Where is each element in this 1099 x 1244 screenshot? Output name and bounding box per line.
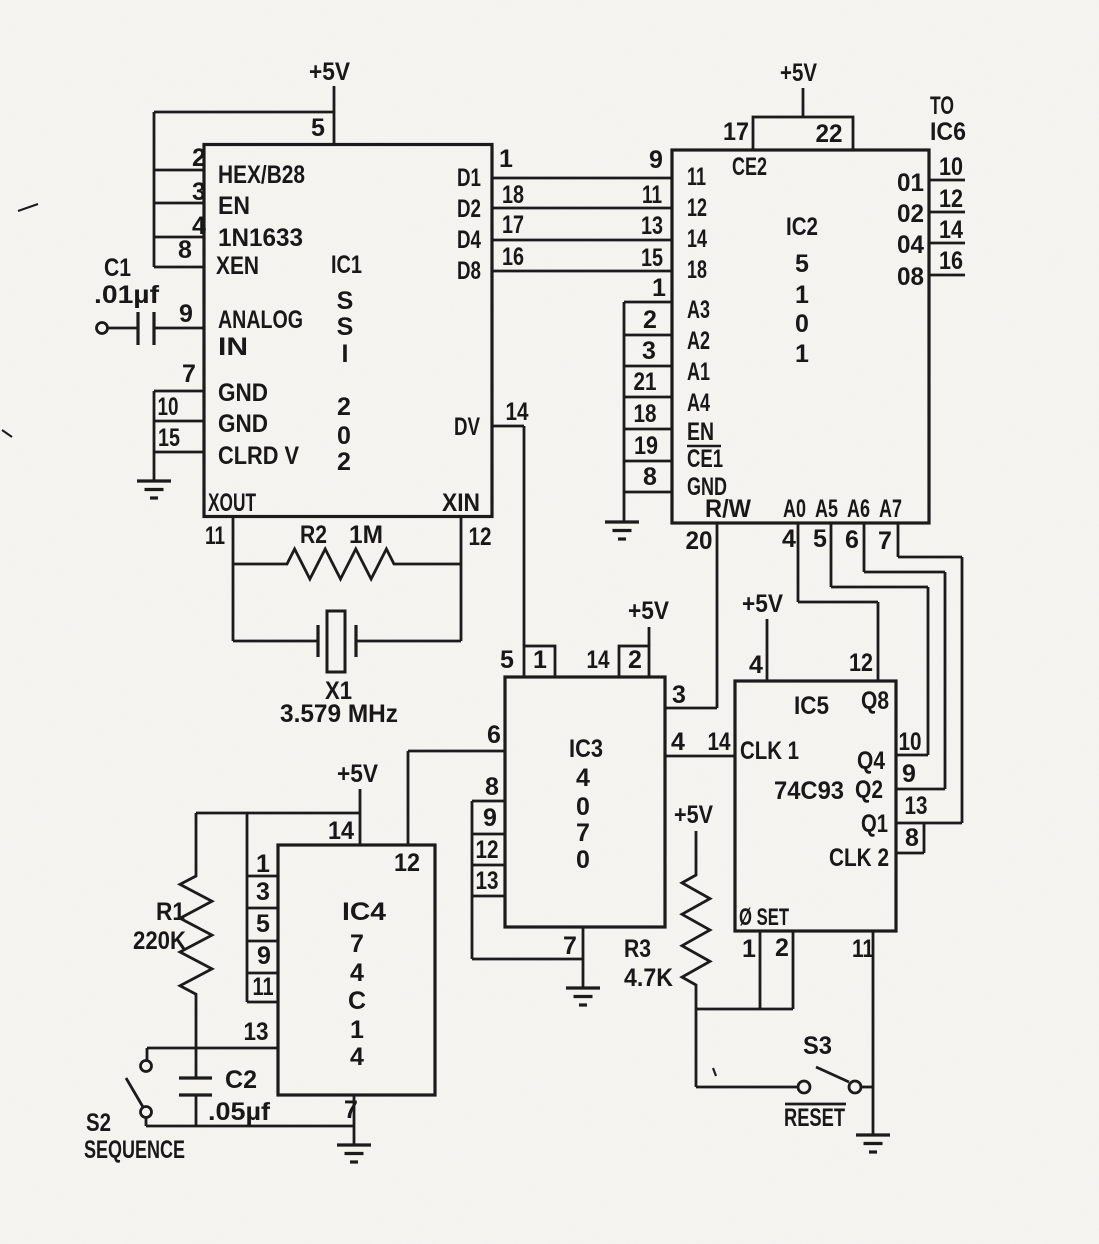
svg-text:R1: R1 (156, 898, 185, 926)
svg-text:1: 1 (742, 935, 756, 963)
S3 lever (816, 1067, 849, 1082)
svg-text:9: 9 (902, 760, 916, 788)
wire A6 net to IC5 pin 9 (864, 523, 945, 789)
svg-text:EN: EN (687, 418, 714, 446)
C1 input terminal circle (97, 323, 108, 334)
svg-text:13: 13 (244, 1018, 269, 1046)
svg-text:GND: GND (218, 379, 268, 407)
svg-text:IN: IN (218, 333, 248, 361)
small tick mark (713, 1068, 716, 1076)
SEQUENCE label (84, 1136, 185, 1164)
svg-text:0: 0 (576, 793, 590, 821)
wire D2 net (IC1 pin 18 to IC2 pin 11) (492, 207, 672, 210)
pin 14 label (708, 728, 731, 756)
DV pin name (454, 413, 480, 441)
svg-text:Q1: Q1 (861, 810, 888, 838)
A0 pin name (783, 495, 806, 523)
pin 1 label (499, 145, 513, 173)
svg-text:01: 01 (897, 169, 924, 197)
pin 3 label (642, 337, 656, 365)
svg-text:Q2: Q2 (855, 776, 883, 804)
svg-text:14: 14 (687, 225, 707, 253)
S2 bottom contact (141, 1107, 152, 1118)
capacitor C2 plates (179, 1078, 212, 1095)
svg-text:14: 14 (587, 646, 610, 674)
pin 9 label (649, 146, 663, 174)
EN pin name (687, 418, 714, 446)
svg-text:C2: C2 (225, 1066, 257, 1094)
svg-text:SEQUENCE: SEQUENCE (84, 1136, 185, 1164)
svg-text:220K: 220K (133, 927, 186, 955)
pin 8 label (905, 824, 919, 852)
GND pin name (687, 473, 727, 501)
IC3 pin 12 wire (472, 864, 505, 867)
svg-text:XIN: XIN (442, 489, 480, 517)
pin 8 label (178, 236, 192, 264)
svg-text:S: S (337, 287, 354, 315)
svg-text:Q4: Q4 (857, 747, 885, 775)
svg-text:+5V: +5V (337, 760, 378, 788)
svg-text:R/W: R/W (705, 495, 751, 523)
svg-text:4: 4 (350, 1043, 364, 1071)
svg-text:22: 22 (816, 120, 843, 148)
pin 13 label (905, 792, 928, 820)
pin 1 label (533, 646, 547, 674)
wire IC5 pin 2 down (792, 931, 795, 1009)
pin 18 label (502, 181, 524, 209)
svg-text:C: C (348, 987, 366, 1015)
IC2 pin 3 wire (624, 365, 672, 368)
IC1 pin 2 wire (154, 169, 204, 172)
svg-text:7: 7 (576, 819, 590, 847)
pin 16 label (502, 243, 524, 271)
svg-text:4: 4 (749, 651, 763, 679)
wire pin13 to S2 top contact (146, 1048, 149, 1060)
svg-text:17: 17 (723, 118, 749, 146)
svg-text:R3: R3 (624, 935, 651, 963)
A5 pin name (815, 495, 838, 523)
svg-text:IC3: IC3 (569, 735, 603, 763)
pin 12 label (849, 649, 873, 677)
svg-text:12: 12 (469, 523, 492, 551)
wire A5 net to IC5 pin 10 (831, 523, 928, 755)
ground under IC1 (137, 481, 171, 498)
IC3 pins 14/2 top box (619, 646, 649, 677)
XIN pin name (442, 489, 480, 517)
wire reset bus (696, 1008, 793, 1011)
gate IC3 4070 body (505, 677, 665, 927)
svg-text:5: 5 (256, 910, 270, 938)
IC4 part number 74C14 column (348, 930, 366, 1071)
IC3 pin 9 wire (472, 833, 505, 836)
pin 8 label (485, 773, 499, 801)
Q2 pin name (855, 776, 883, 804)
wire +5V bus to R1 top (196, 812, 360, 815)
pin 7 label (A7) (878, 527, 892, 555)
svg-text:3: 3 (256, 878, 270, 906)
IC2 pin 1 wire (A3) (624, 301, 672, 304)
wire D1 net (IC1 pin 1 to IC2 pin 9) (492, 177, 672, 180)
+5V supply rail for IC4 (337, 760, 378, 788)
wire C1 terminal to plate (108, 327, 138, 330)
pin 1 label (652, 274, 666, 302)
counter IC5 74C93 body (735, 681, 896, 931)
svg-text:CE1: CE1 (687, 445, 723, 473)
wire D4 net (IC1 pin 17 to IC2 pin 13) (492, 239, 672, 242)
+5V supply rail for R3 (674, 801, 713, 829)
svg-text:11: 11 (642, 181, 662, 209)
pin 3 label (672, 681, 686, 709)
S2 top contact (141, 1061, 152, 1072)
S2 lever (126, 1078, 143, 1107)
svg-text:7: 7 (182, 360, 196, 388)
wire +5V to IC5 pin 4 (766, 619, 769, 681)
wire IC4 unused-inputs chain bus (246, 813, 249, 1002)
IC2 data pin names 11 12 14 18 (687, 163, 707, 284)
wire R3 bottom to S3 (696, 1009, 797, 1087)
pin 2 label (775, 934, 789, 962)
wire IC3 pin 7 to ground (582, 927, 585, 988)
svg-text:A0: A0 (783, 495, 806, 523)
S3 right contact (849, 1081, 861, 1093)
IC1 part number SSI 202 column (337, 287, 354, 476)
svg-text:+5V: +5V (309, 58, 350, 86)
svg-text:0: 0 (337, 422, 351, 450)
crystal designator X1 (325, 677, 352, 705)
pin 13 label (476, 867, 499, 895)
svg-text:8: 8 (485, 773, 499, 801)
wire Q4 pin 10 stub (896, 754, 928, 757)
R3 designator (624, 935, 651, 963)
wire A0 net to IC5 pin 12 (798, 523, 878, 681)
pin 14 label (939, 216, 963, 244)
wire S2/C2 ground bus to IC4 pin 7 (146, 1125, 354, 1128)
svg-text:2: 2 (628, 646, 642, 674)
pin 3 label (256, 878, 270, 906)
pin 16 label (939, 247, 963, 275)
svg-text:18: 18 (502, 181, 524, 209)
svg-text:D8: D8 (457, 257, 481, 285)
CE2 pin name (732, 153, 767, 181)
ground under IC2 chain (605, 522, 639, 539)
svg-text:4: 4 (576, 764, 590, 792)
wire DV pin 14 to IC3 pin 1 (492, 426, 524, 646)
svg-text:18: 18 (634, 400, 657, 428)
svg-text:IC5: IC5 (794, 692, 829, 720)
svg-text:7: 7 (350, 930, 364, 958)
D1 pin name (457, 164, 481, 192)
svg-text:9: 9 (179, 300, 193, 328)
svg-text:13: 13 (641, 212, 663, 240)
Q4 pin name (857, 747, 885, 775)
capacitor C1 plates (138, 312, 154, 345)
pin 10 label (899, 728, 922, 756)
svg-text:4: 4 (782, 525, 796, 553)
pin 5 label (A5) (813, 525, 827, 553)
wire O1 pin 10 to IC6 (929, 179, 965, 182)
IC4 designator (342, 898, 386, 926)
GND GND CLRD V pin names (218, 379, 299, 470)
resistor R2 designator (300, 521, 327, 549)
svg-text:15: 15 (158, 424, 180, 452)
wire D8 net (IC1 pin 16 to IC2 pin 15) (492, 270, 672, 273)
ground under IC4 (337, 1145, 371, 1162)
svg-text:S2: S2 (86, 1109, 111, 1137)
ANALOG IN pin name (218, 306, 303, 361)
pin 9 label (902, 760, 916, 788)
svg-text:D4: D4 (457, 226, 481, 254)
svg-text:6: 6 (487, 721, 501, 749)
svg-text:5: 5 (311, 114, 325, 142)
svg-text:12: 12 (939, 185, 963, 213)
svg-text:3: 3 (192, 178, 206, 206)
IC2 pin 2 wire (624, 334, 672, 337)
svg-text:5: 5 (813, 525, 827, 553)
pin 5 label (500, 646, 514, 674)
wire +5V to IC1 pin 5 (333, 86, 336, 145)
memory IC2 5101 body (672, 150, 929, 523)
scan smudges (decorative) (2, 204, 38, 437)
svg-text:1N1633: 1N1633 (218, 224, 303, 252)
svg-text:1: 1 (499, 145, 513, 173)
wire O2 pin 12 to IC6 (929, 211, 965, 214)
svg-text:14: 14 (506, 398, 529, 426)
svg-text:14: 14 (328, 817, 354, 845)
svg-text:2: 2 (643, 306, 657, 334)
svg-text:1: 1 (350, 1016, 364, 1044)
pin 4 label (A0) (782, 525, 796, 553)
IC1 pin 10 wire (154, 420, 204, 423)
IC2 designator (786, 213, 818, 241)
RESET label with overline (784, 1104, 846, 1132)
svg-text:Ø SET: Ø SET (739, 904, 789, 931)
A1 pin name (687, 358, 710, 386)
X1 value 3.579 MHz (280, 700, 398, 728)
svg-text:9: 9 (257, 942, 271, 970)
IC2 output pin names 01 02 04 08 (897, 169, 924, 291)
wire Q1 pin 13 stub (896, 822, 962, 825)
svg-text:.01µf: .01µf (94, 281, 160, 309)
pin 7 label (344, 1096, 358, 1124)
+5V supply rail for IC1 (309, 58, 350, 86)
svg-text:10: 10 (899, 728, 922, 756)
pin 4 label (192, 212, 206, 240)
wire Q1 to CLK2 pin 8 (896, 823, 924, 853)
svg-text:A2: A2 (687, 327, 710, 355)
wire +5V to IC2 pin 22 (802, 88, 805, 117)
wire XOUT pin 11 down (232, 516, 235, 641)
C2 designator (225, 1066, 257, 1094)
pin 9 label (179, 300, 193, 328)
svg-text:D2: D2 (457, 195, 481, 223)
svg-text:2: 2 (775, 934, 789, 962)
IC2 pin 18 wire (624, 428, 672, 431)
resistor R2 (233, 549, 461, 579)
svg-text:74C93: 74C93 (774, 777, 844, 805)
svg-text:A1: A1 (687, 358, 710, 386)
svg-text:2: 2 (337, 448, 351, 476)
svg-text:IC2: IC2 (786, 213, 818, 241)
svg-text:A3: A3 (687, 296, 710, 324)
svg-text:16: 16 (939, 247, 963, 275)
IC3 pins 5/1 top box (524, 646, 555, 677)
wire C2 bottom to ground bus (195, 1095, 198, 1126)
svg-text:13: 13 (905, 792, 928, 820)
IC3 pin 13 wire (472, 895, 505, 898)
wire S3 to pin 11 line (861, 1086, 873, 1089)
svg-text:20: 20 (686, 527, 713, 555)
wire Q2 pin 9 stub (896, 788, 945, 791)
XOUT pin name (208, 489, 256, 517)
IC2 pin 19 wire (624, 460, 672, 463)
svg-text:4: 4 (350, 959, 364, 987)
IC3 designator (569, 735, 603, 763)
svg-text:CLK 1: CLK 1 (740, 737, 799, 765)
R/W pin name (705, 495, 751, 523)
IC2 pin 21 wire (624, 396, 672, 399)
svg-text:0: 0 (795, 310, 809, 338)
svg-text:7: 7 (563, 932, 577, 960)
pin 4 label (671, 728, 685, 756)
CE1 pin name with overline (687, 445, 723, 473)
svg-text:12: 12 (687, 194, 707, 222)
pin 13 label (244, 1018, 269, 1046)
svg-text:1: 1 (795, 340, 809, 368)
svg-text:RESET: RESET (784, 1104, 845, 1132)
wire R/W pin 20 to IC3 pin 3 (665, 523, 717, 708)
pin 2 label (643, 306, 657, 334)
svg-text:12: 12 (394, 849, 420, 877)
svg-text:11: 11 (205, 522, 225, 550)
pin 12 label (469, 523, 492, 551)
D2 pin name (457, 195, 481, 223)
svg-text:IC1: IC1 (331, 251, 362, 279)
svg-text:14: 14 (708, 728, 731, 756)
IC1 pin 3 wire (154, 202, 204, 205)
svg-text:6: 6 (845, 526, 859, 554)
crystal X1 plates (318, 625, 356, 657)
wire crystal right (356, 640, 461, 643)
svg-text:0: 0 (576, 846, 590, 874)
Q1 pin name (861, 810, 888, 838)
ground under IC5 pin 11 (856, 1135, 890, 1152)
D4 pin name (457, 226, 481, 254)
capacitor C1 designator (104, 254, 131, 282)
pin 9 label (257, 942, 271, 970)
svg-text:ANALOG: ANALOG (218, 306, 303, 334)
IC2 pin 8 wire (624, 491, 672, 494)
S3 left contact (798, 1081, 810, 1093)
R2 value 1M (349, 521, 383, 549)
R1 value 220K (133, 927, 186, 955)
IC4 pin 1 wire (247, 875, 278, 878)
svg-text:02: 02 (897, 200, 924, 228)
svg-text:13: 13 (476, 867, 499, 895)
svg-text:IC6: IC6 (930, 118, 966, 146)
pin 19 label (634, 432, 658, 460)
svg-text:XEN: XEN (216, 252, 259, 280)
pin 18 label (634, 400, 657, 428)
crystal X1 body (327, 611, 345, 672)
svg-text:R2: R2 (300, 521, 327, 549)
svg-text:5: 5 (795, 250, 809, 278)
op-amp IC1 SSI 202 body (204, 145, 492, 517)
IC2 pins 17/22 top box (753, 117, 853, 150)
svg-text:16: 16 (502, 243, 524, 271)
pin 9 label (483, 804, 497, 832)
svg-text:1: 1 (256, 850, 270, 878)
+5V supply rail for IC5 (742, 590, 783, 618)
A3 pin name (687, 296, 710, 324)
svg-text:11: 11 (253, 973, 274, 1001)
pin 11 label (253, 973, 274, 1001)
svg-text:Q8: Q8 (861, 687, 889, 715)
wire IC4 pin 7 to ground (353, 1095, 356, 1145)
svg-text:CE2: CE2 (732, 153, 767, 181)
svg-text:S3: S3 (803, 1032, 832, 1060)
svg-text:10: 10 (939, 153, 963, 181)
svg-text:XOUT: XOUT (208, 489, 256, 517)
pin 15 label (158, 424, 180, 452)
resistor R3 (682, 831, 710, 1009)
C2 value .05uf (208, 1098, 271, 1126)
A4 pin name (687, 389, 710, 417)
A7 pin name (879, 495, 902, 523)
A6 pin name (847, 495, 870, 523)
svg-text:1: 1 (795, 281, 809, 309)
svg-text:+5V: +5V (780, 59, 817, 87)
pin 10 label (939, 153, 963, 181)
svg-text:21: 21 (634, 368, 657, 396)
pin 10 label (158, 393, 179, 421)
pin 14 label (587, 646, 610, 674)
svg-text:DV: DV (454, 413, 480, 441)
pin 7 label (563, 932, 577, 960)
wire +5V to IC4 pin 14 (359, 789, 362, 845)
wire IC2 ground chain bus (623, 302, 626, 522)
svg-text:I: I (342, 340, 349, 368)
svg-text:9: 9 (483, 804, 497, 832)
wire +5V to IC3 pin 2 (648, 627, 651, 646)
IC5 part number 74C93 (774, 777, 844, 805)
svg-text:11: 11 (687, 163, 706, 191)
wire IC4 pin 13 (147, 1047, 278, 1050)
svg-text:15: 15 (641, 244, 663, 272)
pin 5 label (256, 910, 270, 938)
pin 20 label (686, 527, 713, 555)
svg-text:EN: EN (218, 192, 250, 220)
svg-text:19: 19 (634, 432, 658, 460)
IC1 pin 15 wire (154, 451, 204, 454)
pin 6 label (A6) (845, 526, 859, 554)
svg-text:A5: A5 (815, 495, 838, 523)
wire C1 to IC1 pin 9 (154, 327, 204, 330)
D8 pin name (457, 257, 481, 285)
IC4 pin 11 wire (247, 1001, 278, 1004)
IC4 pin 5 wire (247, 940, 278, 943)
wire IC1 ground bus (153, 391, 156, 481)
switch S3 designator (803, 1032, 832, 1060)
pin 11 label (852, 935, 874, 963)
wire IC3 pin 4 to IC5 CLK1 pin 14 (665, 755, 735, 758)
Q8 pin name (861, 687, 889, 715)
svg-text:GND: GND (218, 410, 268, 438)
C1 value .01uf (94, 281, 160, 309)
svg-text:A7: A7 (879, 495, 902, 523)
svg-text:17: 17 (502, 211, 524, 239)
svg-text:12: 12 (849, 649, 873, 677)
svg-text:3: 3 (642, 337, 656, 365)
